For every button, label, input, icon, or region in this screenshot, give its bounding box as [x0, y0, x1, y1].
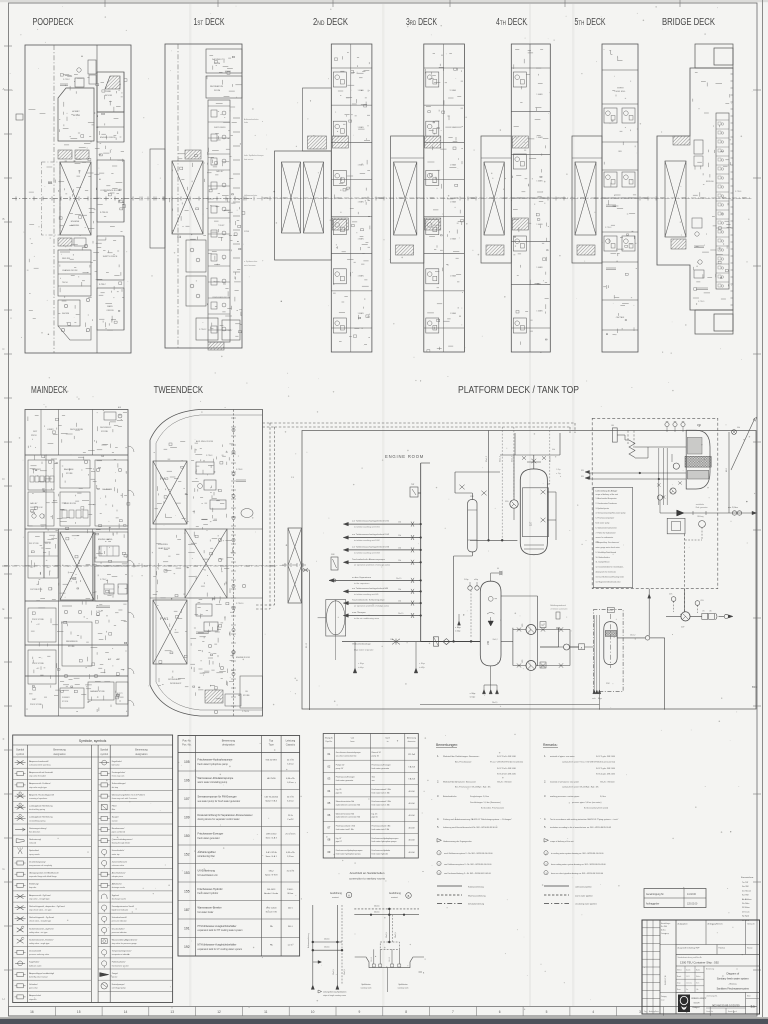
svg-text:8: 8	[405, 1010, 407, 1014]
svg-text:3-TW-7: 3-TW-7	[99, 284, 107, 286]
svg-text:fresh water generator: fresh water generator	[372, 767, 390, 770]
tank 157 potable water tank	[520, 469, 547, 555]
svg-text:4: 4	[592, 1010, 594, 1014]
svg-text:pump 10': pump 10'	[336, 768, 344, 770]
svg-text:A: A	[348, 894, 350, 897]
notes Bemerkungen line legend dashdot	[437, 902, 462, 904]
POOPDECK stair trapezoid hatch upper right	[105, 76, 120, 89]
svg-text:safety valve - angle type: safety valve - angle type	[29, 942, 49, 945]
svg-text:n. Dip: n. Dip	[556, 473, 561, 475]
svg-text:GmbH: GmbH	[694, 1003, 700, 1005]
svg-text:screwing el sperrbrau: screwing el sperrbrau	[29, 797, 47, 800]
FWG delivery scope list box	[593, 487, 632, 587]
svg-text:106: 106	[184, 779, 190, 783]
svg-text:B: B	[2, 217, 4, 221]
2nd DECK inner wall	[350, 44, 352, 352]
svg-text:6,2 bar: 6,2 bar	[287, 799, 294, 802]
svg-text:Symbol: Symbol	[100, 749, 108, 752]
svg-text:flow direction: flow direction	[29, 830, 40, 833]
vertical riser right of 157 (dashed)	[549, 427, 551, 484]
svg-text:Syphon/: Syphon/	[112, 895, 120, 897]
svg-text:15x1,5: 15x1,5	[389, 957, 391, 962]
svg-text:Strömungsrichtung/: Strömungsrichtung/	[29, 827, 47, 830]
svg-text:1 MAN: 1 MAN	[450, 201, 457, 204]
svg-text:loop des: loop des	[29, 887, 36, 889]
svg-text:1 MAN: 1 MAN	[357, 89, 364, 92]
pipe loop to boundary bottom	[664, 638, 666, 710]
svg-text:02: 02	[327, 764, 330, 768]
variant A branch lines	[313, 941, 342, 943]
svg-text:3-TW-3: 3-TW-3	[206, 455, 212, 457]
svg-text:Remarks:: Remarks:	[543, 743, 558, 747]
svg-text:191: 191	[184, 927, 190, 931]
svg-text:5: 5	[546, 1010, 548, 1014]
svg-text:Frischwasser-Erzeuger: Frischwasser-Erzeuger	[336, 776, 355, 779]
svg-text:Kaltwasserleitung: Kaltwasserleitung	[468, 886, 484, 889]
FWG internals small valves	[657, 483, 661, 486]
svg-text:ausklappbarte Rohrleitung: ausklappbarte Rohrleitung	[29, 805, 52, 808]
svg-text:Fremdgesteuertes Ventil/: Fremdgesteuertes Ventil/	[112, 905, 135, 908]
svg-text:1 MAN: 1 MAN	[357, 238, 364, 241]
svg-text:Frischwassertank 1 Stb: Frischwassertank 1 Stb	[372, 800, 391, 803]
deck plan 3rd DECK main strip outline	[424, 44, 465, 352]
svg-text:bilge water separator: bilge water separator	[354, 649, 374, 652]
svg-text:PA: PA	[270, 925, 273, 928]
symbols legend rows	[13, 767, 92, 769]
4th DECK annex outline	[481, 136, 511, 263]
svg-text:Ltg. 05: Ltg. 05	[372, 812, 378, 815]
svg-text:Warmwasserleitung: Warmwasserleitung	[468, 895, 486, 898]
3rd DECK sanitary cells	[426, 72, 439, 87]
pipe from 155/105 pumps out to the right	[556, 627, 560, 629]
svg-text:Pos.-No.: Pos.-No.	[182, 744, 192, 747]
svg-text:03: 03	[327, 777, 330, 781]
svg-text:Anschlußstück/: Anschlußstück/	[112, 872, 126, 875]
svg-text:CONFERENCE ROOM: CONFERENCE ROOM	[100, 190, 120, 192]
svg-text:n. Bilge: n. Bilge	[455, 627, 461, 629]
svg-text:Fabrikat: Fabrikat	[719, 947, 726, 950]
svg-text:MAINDECK: MAINDECK	[31, 385, 68, 396]
svg-text:von: von	[351, 738, 355, 740]
svg-text:STORE: STORE	[243, 695, 250, 697]
svg-text:LW-2: LW-2	[269, 871, 275, 873]
svg-text:TW: TW	[411, 484, 414, 486]
svg-text:+-2C: +-2C	[36, 624, 41, 626]
svg-text:Melzer: Melzer	[696, 975, 701, 978]
1st DECK top rooms	[206, 49, 242, 73]
svg-text:stop valve - straight type: stop valve - straight type	[29, 897, 49, 900]
svg-text:CREW MESS ROOM: CREW MESS ROOM	[212, 297, 230, 299]
svg-text:PROV: PROV	[31, 435, 37, 437]
5th DECK small fixtures	[606, 204, 616, 206]
svg-text:Spiral / 6 A 5: Spiral / 6 A 5	[265, 799, 278, 802]
svg-text:Unverlässlich/: Unverlässlich/	[112, 850, 125, 852]
svg-text:ejector: ejector	[112, 976, 118, 979]
svg-text:zusätzliche: zusätzliche	[696, 503, 704, 506]
svg-text:14.02.00: 14.02.00	[687, 894, 697, 896]
svg-text:Frischwasser-Hydrophorpumpe: Frischwasser-Hydrophorpumpe	[198, 758, 233, 761]
pump 107 discharge line fittings	[666, 615, 681, 617]
svg-text:stopcock: stopcock	[29, 998, 37, 1001]
deck plan MAINDECK outline	[25, 410, 128, 717]
notes Remarks line legend dashed	[544, 894, 569, 896]
svg-text:dosing device for separator co: dosing device for separator control wate…	[198, 818, 240, 821]
svg-text:157: 157	[529, 521, 533, 526]
1st DECK interior fine detail texture	[212, 251, 217, 253]
svg-text:Taschenbecknik: Abwasserpumpe: Taschenbecknik: Abwasserpumpe	[352, 558, 386, 561]
svg-text:Norm: Norm	[677, 988, 681, 991]
svg-text:to turbine washing unit DG1: to turbine washing unit DG1	[354, 526, 380, 529]
svg-text:ENGINE CASING: ENGINE CASING	[98, 538, 113, 541]
valves around pumps 105	[517, 628, 521, 632]
sheet outer right edge line	[762, 0, 764, 1017]
svg-text:40x1,5: 40x1,5	[500, 455, 502, 462]
svg-text:STORE: STORE	[101, 431, 109, 433]
MAINDECK reference store	[62, 622, 92, 666]
svg-text:Änderung/Bemerk: Änderung/Bemerk	[708, 923, 723, 926]
svg-text:50 m³/h: 50 m³/h	[287, 796, 295, 799]
svg-text:SW: SW	[581, 476, 584, 478]
svg-text:pipe 05: pipe 05	[336, 792, 342, 794]
notes Remarks circled 3	[544, 871, 548, 875]
svg-text:B: B	[423, 973, 425, 975]
svg-text:11. Dampf-Heizer: 11. Dampf-Heizer	[596, 562, 610, 564]
1st DECK lower detail rooms	[186, 240, 206, 272]
title block frame	[642, 920, 760, 1014]
svg-text:3-TW-8: 3-TW-8	[236, 469, 242, 471]
svg-text:Anschluß an Sanitärzellen: Anschluß an Sanitärzellen	[350, 871, 385, 875]
svg-text:Benennung: Benennung	[135, 749, 148, 752]
svg-text:to bilge: to bilge	[358, 666, 364, 669]
manifold pipe 2	[343, 537, 420, 539]
svg-text:REFERENCE: REFERENCE	[66, 641, 78, 643]
4th DECK annex elevator hatch	[484, 162, 504, 235]
svg-text:Unterdruckventil/: Unterdruckventil/	[112, 916, 127, 919]
svg-text:See: See	[372, 777, 375, 779]
svg-text:20x1,5: 20x1,5	[486, 455, 488, 462]
3rd DECK annex elevator hatch	[394, 162, 417, 235]
svg-text:1 MAN: 1 MAN	[357, 201, 364, 204]
svg-text:zum Ölraupen: zum Ölraupen	[352, 611, 367, 614]
svg-text:Temperaturbegrenzer/: Temperaturbegrenzer/	[112, 950, 132, 953]
title block revision column	[659, 920, 661, 1014]
svg-text:St 35.4 feZn DIN 2445: St 35.4 feZn DIN 2445	[497, 772, 516, 775]
svg-text:1ST DECK: 1ST DECK	[194, 17, 225, 28]
svg-text:temperature indicator: temperature indicator	[112, 953, 130, 956]
valve on bottom line	[395, 639, 397, 645]
svg-text:Drosselventil/: Drosselventil/	[29, 950, 41, 953]
svg-text:CHANGE ROOM: CHANGE ROOM	[62, 269, 78, 272]
svg-text:von Kühlwassersystem 2—Nr. 9: von Kühlwassersystem 2—Nr. 902—W220.86.1…	[444, 863, 491, 866]
svg-text:Fer: Fer	[686, 988, 689, 991]
svg-text:BAGGAGE: BAGGAGE	[64, 468, 74, 471]
svg-text:expansion tank for HT cooling: expansion tank for HT cooling water syst…	[198, 929, 243, 932]
3rd DECK cabin walls	[424, 104, 465, 106]
svg-text:105: 105	[522, 659, 524, 663]
svg-text:3-TW-14: 3-TW-14	[242, 711, 249, 713]
svg-text:variant: variant	[332, 896, 339, 899]
svg-text:suction: suction	[112, 819, 118, 822]
svg-text:strips of single sanitary room: strips of single sanitary room	[323, 994, 346, 997]
svg-text:stop valve angle type: stop valve angle type	[29, 786, 47, 789]
pump rails 105 group	[512, 628, 514, 666]
svg-text:Leistung: Leistung	[286, 740, 296, 743]
deck plan 2nd DECK main strip outline	[331, 44, 372, 352]
svg-text:Leitungsführung Spülkästen: Leitungsführung Spülkästen	[323, 991, 346, 994]
svg-text:St 37.2 galv. DIN 2440: St 37.2 galv. DIN 2440	[596, 767, 615, 770]
svg-text:Ausführung: Ausführung	[330, 892, 342, 895]
svg-text:GALLEY: GALLEY	[216, 170, 224, 173]
svg-text:7 A Zoll: 7 A Zoll	[408, 765, 415, 768]
svg-text:issue: issue	[661, 1000, 665, 1002]
svg-text:Sanitäres Frischwassersystem: Sanitäres Frischwassersystem	[717, 988, 749, 991]
svg-text:Ferienigungs: Ferienigungs	[661, 933, 669, 935]
svg-text:108: 108	[331, 554, 335, 556]
svg-text:H: H	[2, 997, 4, 1001]
MAINDECK laundry galley band fixtures	[28, 460, 54, 490]
svg-text:08: 08	[327, 838, 330, 842]
svg-text:E: E	[2, 607, 4, 611]
svg-text:Spiral / 3 W 8: Spiral / 3 W 8	[265, 873, 278, 876]
svg-text:OFF.: OFF.	[618, 151, 623, 153]
svg-text:liquid level indicator: liquid level indicator	[112, 909, 129, 912]
svg-text:Kw KW: Kw KW	[742, 895, 749, 897]
svg-text:RUBBER: RUBBER	[62, 697, 70, 699]
svg-text:Dosiereinrichtung für Separato: Dosiereinrichtung für Separatoren-/Douse…	[198, 814, 253, 817]
svg-text:Warmwasser-Bereiter: Warmwasser-Bereiter	[198, 906, 222, 909]
svg-text:3. Ejektor/ejector: 3. Ejektor/ejector	[596, 507, 610, 510]
POOPDECK casing dashed annex	[41, 162, 60, 235]
svg-text:to cooling water system dra: to cooling water system drawing no. 902—…	[551, 852, 603, 855]
svg-text:2 mPX: 2 mPX	[287, 819, 294, 821]
svg-text:Auftraggeber: Auftraggeber	[646, 903, 660, 906]
svg-text:1 MAN: 1 MAN	[357, 163, 364, 166]
manifold pipe 1 to turbine washing unit DG1	[343, 523, 420, 525]
svg-text:Lbk: Lbk	[696, 989, 699, 991]
left border tick marks	[4, 45, 12, 47]
svg-text:reduced: reduced	[29, 842, 36, 845]
svg-text:water gauge meter fresh water: water gauge meter fresh water	[596, 546, 621, 549]
svg-text:Pos.-Nr.: Pos.-Nr.	[182, 740, 191, 743]
pump 105 lower	[526, 661, 536, 671]
svg-text:HT-Kühlwasser-Ausgleichsbehält: HT-Kühlwasser-Ausgleichsbehälter	[198, 925, 237, 928]
svg-text:SHORE: SHORE	[62, 313, 70, 315]
svg-text:RED RM: RED RM	[62, 258, 70, 260]
svg-text:Bilge: Bilge	[598, 698, 602, 700]
svg-text:-Glasnar-: -Glasnar-	[728, 983, 737, 986]
valves near 153	[459, 485, 464, 490]
svg-text:PROV STORE: PROV STORE	[30, 704, 43, 706]
svg-text:Lieferumfang der Anlage/: Lieferumfang der Anlage/	[596, 490, 618, 493]
svg-text:Druckschalter/: Druckschalter/	[112, 927, 125, 930]
svg-text:pipes combined: pipes combined	[112, 831, 125, 833]
svg-text:Flansch 10': Flansch 10'	[372, 752, 382, 754]
svg-text:verzweiflung spring: verzweiflung spring	[29, 819, 45, 822]
pump 107 sea water pump	[681, 612, 690, 621]
svg-text:200 l.: 200 l.	[288, 908, 294, 910]
svg-text:fresh water hydrofor: fresh water hydrofor	[372, 852, 389, 855]
2nd DECK interior texture	[346, 115, 348, 116]
svg-text:Gepr.: Gepr.	[677, 982, 681, 985]
2nd DECK stair hatches mid	[332, 136, 348, 148]
svg-text:MESS ROOM: MESS ROOM	[64, 503, 76, 505]
pump 120 beside tank 157	[510, 500, 518, 508]
svg-text:Strang-Nr.: Strang-Nr.	[325, 737, 334, 740]
svg-text:Nr. 4546: Nr. 4546	[661, 926, 667, 928]
bottom ruler strip	[9, 1006, 758, 1008]
svg-text:A: A	[581, 646, 583, 649]
svg-text:80 bar: 80 bar	[287, 892, 293, 895]
svg-text:adapter piece: adapter piece	[112, 875, 123, 878]
svg-text:1.: 1.	[437, 754, 439, 758]
POOPDECK rooms right wall	[123, 72, 125, 142]
svg-text:16: 16	[30, 1010, 34, 1014]
svg-text:zur Turbinenwaschanlage/einhei: zur Turbinenwaschanlage/einheit DG3	[352, 545, 390, 548]
svg-text:15d: 15d	[398, 547, 401, 549]
svg-text:3-TW-5: 3-TW-5	[96, 611, 102, 613]
svg-text:ball/cock valve: ball/cock valve	[29, 965, 41, 967]
svg-text:REF STORE: REF STORE	[29, 543, 40, 545]
notes Remarks circled 2	[544, 861, 548, 865]
svg-text:Symbole, symbols: Symbole, symbols	[79, 739, 107, 743]
svg-text:Rückschlagventil - Zg-Form/: Rückschlagventil - Zg-Form/	[29, 916, 54, 919]
svg-text:butterfly valve manual: butterfly valve manual	[29, 976, 48, 979]
deck plan POOPDECK outline	[25, 45, 131, 353]
svg-text:von Deckwaschleitung 2—Nr. 9: von Deckwaschleitung 2—Nr. 902—W150.86.1…	[444, 872, 491, 875]
1st DECK left annex	[150, 149, 165, 248]
svg-text:107: 107	[184, 797, 190, 801]
svg-text:14. Magnetventil/solenoid valv: 14. Magnetventil/solenoid valve	[596, 580, 621, 583]
svg-text:C-Dip: C-Dip	[556, 469, 561, 471]
svg-text:ball valve: ball valve	[112, 765, 120, 767]
svg-text:Benennung: Benennung	[53, 749, 66, 752]
svg-text:fresh water generator: fresh water generator	[336, 779, 354, 782]
TWEENDECK transverse centerline	[142, 565, 276, 567]
svg-text:Sicherheitsventil - Eckform/: Sicherheitsventil - Eckform/	[29, 938, 54, 941]
svg-text:60: 60	[497, 568, 499, 570]
svg-text:sanitary fresh water: 97-Cu /: sanitary fresh water: 97-Cu / CW DIN 597…	[562, 760, 616, 763]
svg-text:Ab Abfluss: Ab Abfluss	[742, 898, 751, 901]
svg-text:designation: designation	[135, 753, 148, 756]
FWG heater outlet pipe	[635, 457, 648, 459]
svg-text:nach: nach	[385, 738, 391, 740]
svg-text:15x1,5: 15x1,5	[324, 939, 329, 941]
FWG incoming dashed lines from deck	[627, 431, 629, 445]
svg-text:PLATFORM DECK / TANK TOP: PLATFORM DECK / TANK TOP	[458, 385, 579, 396]
symbols legend table frame	[13, 735, 173, 1003]
svg-text:15x1,5: 15x1,5	[386, 932, 388, 938]
svg-text:Kern: Kern	[696, 982, 699, 985]
svg-text:0,86 m³/h: 0,86 m³/h	[286, 777, 296, 780]
valve at tank outlet	[303, 568, 308, 572]
3rd DECK stair hatches mid	[425, 136, 441, 148]
svg-text:Sicherheitsventil - Zg-Form/: Sicherheitsventil - Zg-Form/	[29, 927, 54, 930]
svg-text:Druckleitungsweg/: Druckleitungsweg/	[29, 860, 46, 863]
svg-text:flowing through limiter: flowing through limiter	[112, 842, 131, 845]
ship centerline through tank	[282, 564, 306, 566]
svg-text:A/B: A/B	[118, 406, 122, 409]
FWG internal vertical pipes	[658, 448, 660, 505]
valve box 108	[331, 557, 338, 570]
svg-text:45%: 45%	[700, 600, 704, 602]
svg-text:water tap: water tap	[112, 853, 120, 856]
1st DECK elevator casing hatch	[172, 161, 203, 234]
svg-text:fresh water generator: fresh water generator	[198, 837, 220, 840]
svg-text:125 Zoll: 125 Zoll	[408, 754, 416, 756]
svg-text:Typ: Typ	[269, 740, 274, 743]
svg-text:26x1,2: 26x1,2	[493, 639, 498, 641]
2nd DECK transverse centerline	[263, 197, 384, 199]
riser from FWG unit down to outlet line	[648, 589, 650, 636]
svg-text:40 Zoll: 40 Zoll	[408, 827, 415, 829]
svg-text:fresh water hydrophore pumps: fresh water hydrophore pumps	[372, 840, 397, 843]
svg-text:sea chest connection line: sea chest connection line	[336, 755, 357, 758]
svg-text:Querschnittsbegrenzer/: Querschnittsbegrenzer/	[112, 838, 133, 841]
svg-text:3,0 m³/h: 3,0 m³/h	[287, 870, 295, 873]
MAINDECK top stores row	[40, 410, 42, 456]
manifold pipe 8	[343, 615, 420, 617]
svg-text:drainage nozzle: drainage nozzle	[112, 886, 125, 889]
svg-text:Sw SW: Sw SW	[742, 886, 749, 888]
svg-text:STEERING: STEERING	[158, 544, 168, 546]
notes Bemerkungen line legend dashed	[437, 894, 462, 896]
4th DECK stair hatches mid	[512, 136, 528, 148]
svg-text:AUX. ENG. ROOM: AUX. ENG. ROOM	[196, 440, 213, 443]
svg-text:5. Frischwasserpumpe/: 5. Frischwasserpumpe/	[596, 518, 615, 520]
svg-text:1.: 1.	[544, 754, 546, 758]
expansion tank 152 enclosure (dash-dot)	[593, 610, 623, 692]
check valves after pumps	[559, 627, 563, 631]
deck plan BRIDGE DECK top block	[695, 44, 733, 68]
top row ship centerline across sheet	[12, 198, 752, 200]
svg-text:material of armatures: sea wat: material of armatures: sea water:	[550, 781, 580, 784]
svg-text:fresh water hydrophore pumps: fresh water hydrophore pumps	[336, 852, 361, 855]
svg-text:zu den Vaporatoren: zu den Vaporatoren	[352, 576, 372, 579]
svg-text:OIL: OIL	[245, 691, 248, 693]
pipe junction line near tank 157 bottom	[470, 539, 517, 541]
svg-text:Gemacht: Gemacht	[747, 923, 755, 926]
svg-text:Herstellungs-: Herstellungs-	[661, 922, 671, 925]
svg-text:Spülkästen: Spülkästen	[361, 983, 370, 986]
svg-text:fresh water tank 1 Stb: fresh water tank 1 Stb	[336, 828, 354, 831]
svg-text:+4C: +4C	[36, 668, 40, 670]
svg-text:2.: 2.	[544, 780, 546, 784]
svg-text:Aufbau: Aufbau	[661, 929, 666, 932]
svg-text:Frischwasser-Hydrofor: Frischwasser-Hydrofor	[198, 888, 223, 891]
svg-text:ENGINE ROOM: ENGINE ROOM	[385, 454, 424, 459]
POOPDECK stair hatch lower	[58, 238, 72, 246]
BRIDGE DECK lower interior marks	[698, 260, 702, 264]
1st DECK stair hatches	[185, 150, 201, 159]
FWG chemical dosing box	[667, 518, 685, 534]
svg-text:kalte. Spülbeleuchtampe: kalte. Spülbeleuchtampe	[244, 154, 264, 157]
svg-text:REF ST.: REF ST.	[45, 543, 52, 545]
3rd DECK transverse centerline	[379, 197, 477, 199]
TWEENDECK mid walls	[150, 528, 185, 530]
svg-text:Spülkästen: Spülkästen	[398, 983, 407, 986]
svg-text:BSM: BSM	[752, 686, 757, 689]
svg-text:UV-sterilization unit: UV-sterilization unit	[198, 874, 218, 877]
svg-text:ENGINE: ENGINE	[71, 221, 80, 223]
vessel 155 hydrophore tank	[480, 581, 501, 666]
svg-text:ACETY: ACETY	[117, 692, 124, 695]
svg-text:06: 06	[327, 813, 330, 817]
svg-text:Schieber/: Schieber/	[29, 984, 38, 986]
svg-text:40d: 40d	[552, 449, 555, 451]
svg-text:F A 5 325 A: F A 5 325 A	[266, 851, 277, 854]
svg-text:warm water circulating pump: warm water circulating pump	[198, 781, 228, 784]
svg-text:4. Seewasserpumpe/Sea water pu: 4. Seewasserpumpe/Sea water pump	[596, 512, 626, 515]
